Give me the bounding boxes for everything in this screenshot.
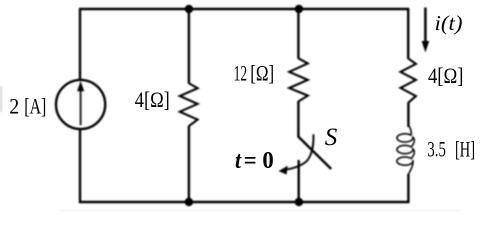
svg-text:S: S xyxy=(325,124,338,151)
current source I1 arrowhead xyxy=(77,81,84,91)
switch arc arrow xyxy=(287,134,314,169)
current source I1 circle xyxy=(56,80,105,129)
svg-text:2: 2 xyxy=(9,93,19,118)
wire branch2 upper xyxy=(188,8,190,84)
junction dot bottom branch3 xyxy=(295,198,303,206)
switch arc arrowhead xyxy=(279,166,288,175)
svg-text:4[Ω]: 4[Ω] xyxy=(135,87,170,112)
svg-text:3.5: 3.5 xyxy=(427,137,446,162)
svg-text:4[Ω]: 4[Ω] xyxy=(428,63,464,88)
faint bottom scan line xyxy=(60,210,460,211)
faint left scan bar xyxy=(0,86,2,112)
svg-text:[H]: [H] xyxy=(455,137,475,162)
svg-text:= 0: = 0 xyxy=(244,147,274,174)
wire bottom horizontal xyxy=(79,201,409,203)
wire right upper xyxy=(407,8,409,59)
wire branch3 upper xyxy=(297,8,299,59)
junction dot top branch3 xyxy=(295,5,303,13)
wire branch2 lower xyxy=(188,126,190,203)
wire right between resistor and inductor xyxy=(407,103,409,127)
wire top horizontal xyxy=(79,8,409,10)
resistor R1 4 ohm zigzag xyxy=(180,83,198,126)
current arrow i(t) head xyxy=(422,41,430,53)
switch S blade xyxy=(298,137,331,170)
wire branch3 lower xyxy=(298,160,300,203)
wire branch3 middle (to switch hinge) xyxy=(297,101,299,137)
junction dot top branch2 xyxy=(185,5,193,13)
svg-text:i(t): i(t) xyxy=(435,11,463,35)
inductor L1 coil 3.5H xyxy=(409,126,412,136)
svg-text:t: t xyxy=(235,147,242,174)
current arrow i(t) shaft xyxy=(424,8,427,44)
current source I1 arrow shaft xyxy=(80,90,82,125)
svg-text:[A]: [A] xyxy=(24,93,46,118)
wire left lower xyxy=(79,129,81,204)
wire left upper xyxy=(79,8,81,81)
svg-text:[Ω]: [Ω] xyxy=(250,61,274,86)
resistor R3 4 ohm zigzag right xyxy=(401,59,416,104)
junction dot bottom branch2 xyxy=(185,198,193,206)
resistor R2 12 ohm zigzag xyxy=(289,58,308,101)
svg-text:12: 12 xyxy=(234,61,248,86)
wire right lower xyxy=(407,174,409,203)
